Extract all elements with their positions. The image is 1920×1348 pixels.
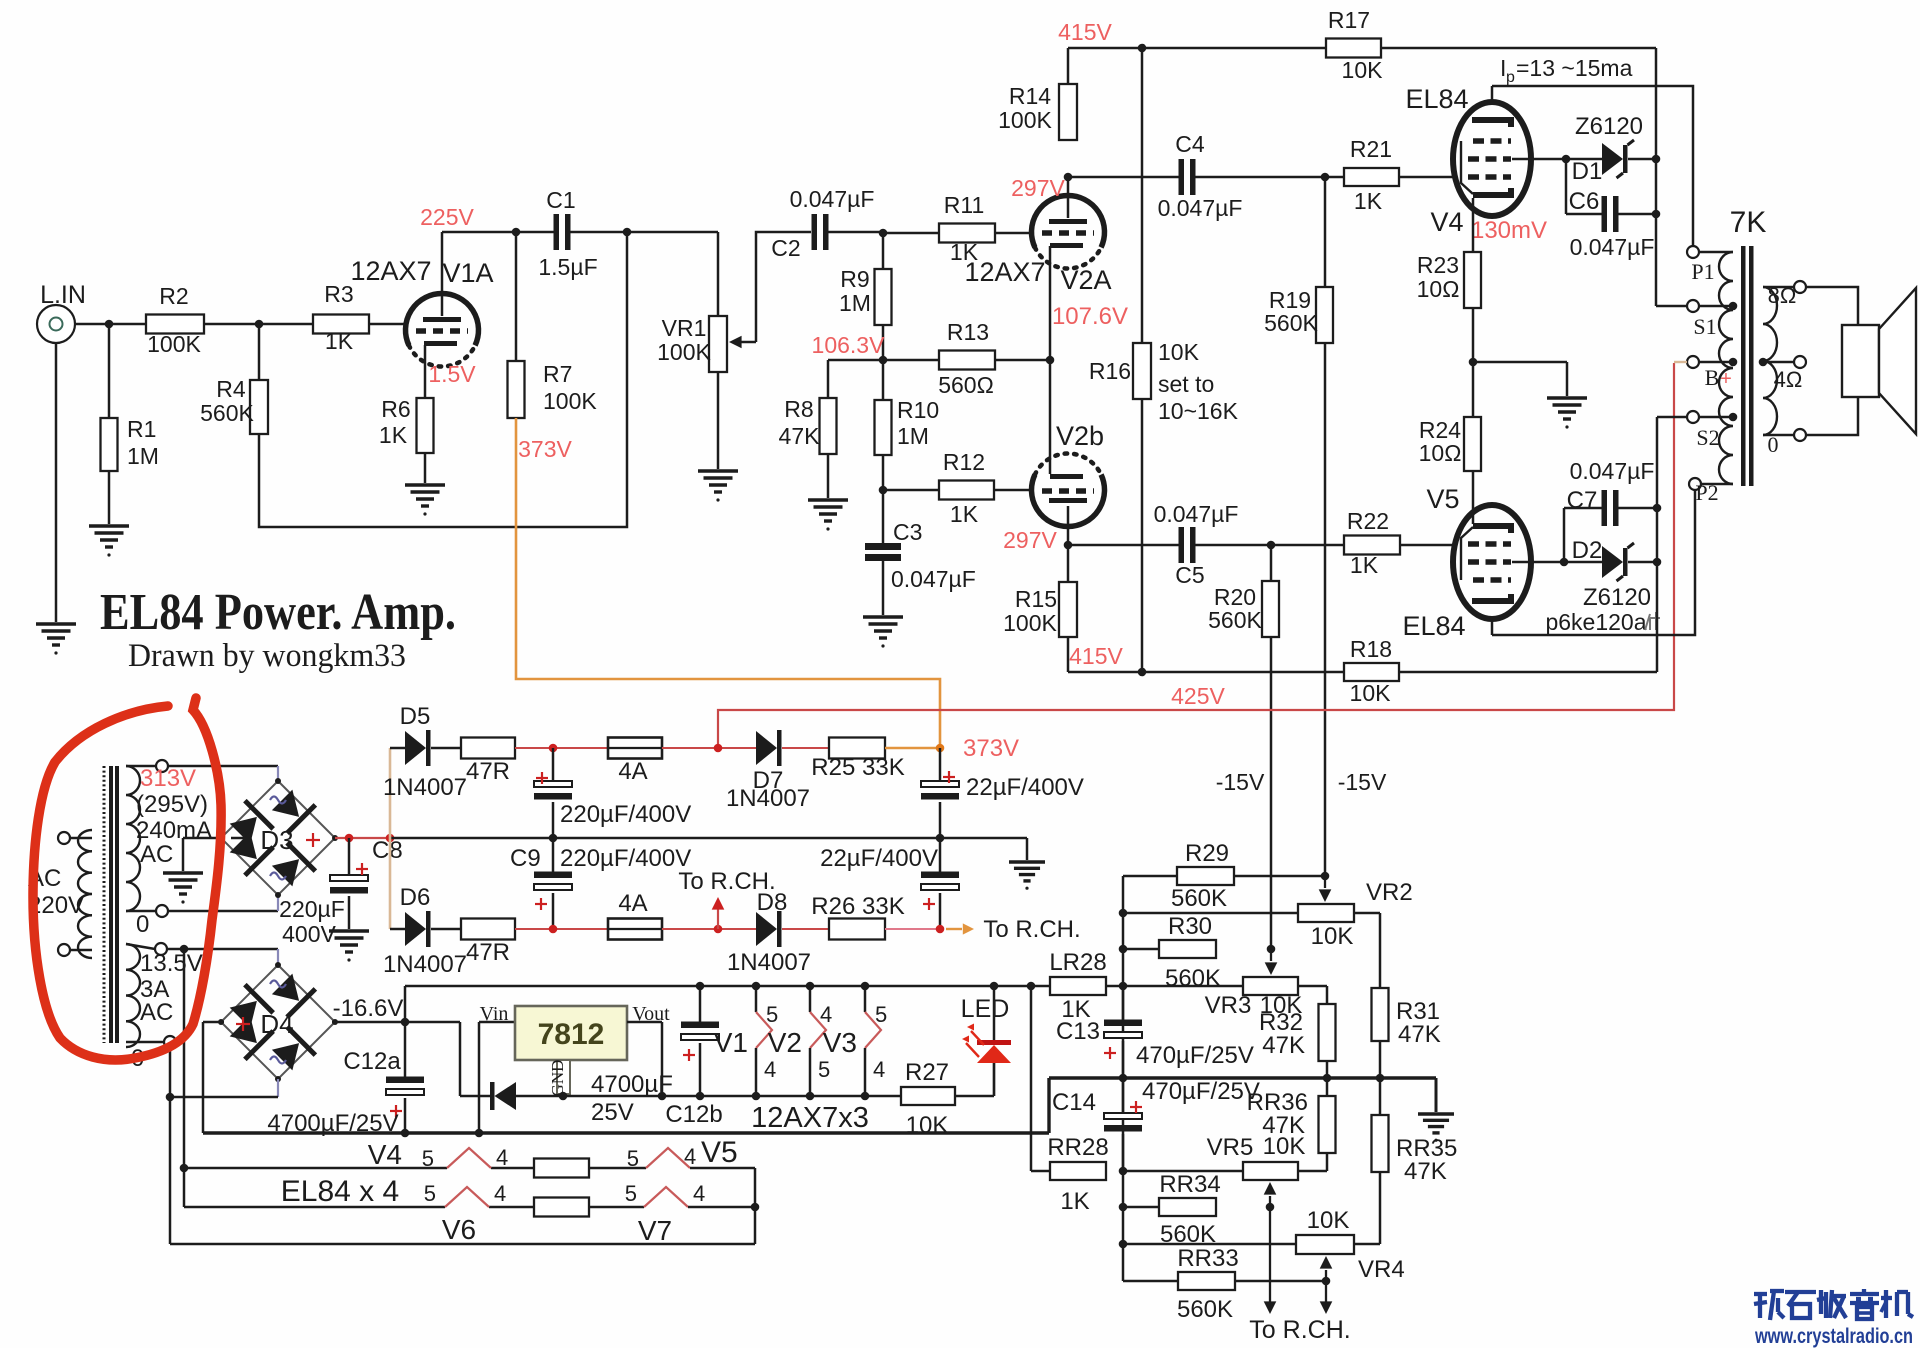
svg-text:C8: C8 xyxy=(372,837,403,864)
svg-text:-15V: -15V xyxy=(1338,769,1387,795)
wire R15 to 415V rail xyxy=(1067,637,1070,672)
node feedback junction xyxy=(623,228,632,237)
terminal 0 xyxy=(1794,429,1806,441)
node C2/R9/R11 xyxy=(879,229,888,238)
resistor R18 xyxy=(1344,663,1399,681)
diode D5 xyxy=(390,747,405,750)
output transformer secondary coil xyxy=(1763,287,1777,435)
node tan vertical junction xyxy=(386,834,395,843)
svg-text:560K: 560K xyxy=(200,400,254,426)
svg-text:S1: S1 xyxy=(1693,314,1716,339)
svg-text:1K: 1K xyxy=(1354,188,1383,214)
wire RR35 to mid rail xyxy=(1379,1078,1382,1115)
resistor R23 xyxy=(1464,252,1481,308)
svg-text:LED: LED xyxy=(961,995,1010,1023)
svg-text:4: 4 xyxy=(873,1057,885,1082)
svg-text:B: B xyxy=(1705,365,1720,390)
svg-text:D1: D1 xyxy=(1572,158,1603,185)
wire HV bottom to D3 xyxy=(168,910,278,913)
potentiometer VR1 xyxy=(717,232,720,316)
node cathode junction xyxy=(1469,358,1478,367)
capacitor C4 xyxy=(1179,159,1185,195)
wire bias mid rail xyxy=(1049,1076,1436,1079)
node primary tap S2 xyxy=(1729,413,1738,422)
svg-text:p6ke120a: p6ke120a xyxy=(1545,609,1646,635)
wire R29 to VR2 wiper node xyxy=(1234,875,1325,878)
node 22uF mid xyxy=(936,834,945,843)
wire heater top rail xyxy=(405,985,1050,988)
node R19 top xyxy=(1321,173,1330,182)
svg-text:4: 4 xyxy=(693,1181,705,1206)
ground for R1 xyxy=(89,524,129,527)
svg-text:VR1: VR1 xyxy=(662,315,707,341)
svg-text:V4: V4 xyxy=(1430,207,1463,237)
svg-text:R1: R1 xyxy=(127,416,156,442)
node C9 mid xyxy=(549,834,558,843)
svg-text:EL84 x 4: EL84 x 4 xyxy=(281,1175,399,1208)
resistor R7 xyxy=(515,232,518,361)
svg-text:D5: D5 xyxy=(400,703,431,730)
resistor R26 xyxy=(782,928,829,930)
node VR4 wire left xyxy=(1119,1240,1128,1249)
svg-text:470µF/25V: 470µF/25V xyxy=(1142,1078,1260,1105)
svg-text:47R: 47R xyxy=(466,758,510,785)
wire to V5 heater xyxy=(589,1167,646,1170)
node C8 top xyxy=(345,834,354,843)
svg-text:Vin: Vin xyxy=(480,1003,509,1025)
wire R6 to ground xyxy=(424,453,427,483)
wire heater right return xyxy=(754,1168,757,1244)
potentiometer VR3 xyxy=(1243,977,1298,995)
zener D1 xyxy=(1566,158,1602,161)
resistor R1 xyxy=(108,324,111,418)
resistor 47R top xyxy=(431,747,461,750)
heater V2 xyxy=(809,986,812,1012)
node C7 right xyxy=(1653,504,1662,513)
node GND pin xyxy=(559,1092,568,1101)
capacitor C3 xyxy=(882,490,885,543)
wire C1 to VR1 xyxy=(570,231,718,234)
node LR28 right xyxy=(1119,982,1128,991)
svg-text:373V: 373V xyxy=(963,735,1019,762)
wire V5 anode to P2 xyxy=(1492,490,1695,635)
svg-text:To R.CH.: To R.CH. xyxy=(1249,1316,1350,1344)
resistor R13 xyxy=(883,359,939,362)
svg-text:R3: R3 xyxy=(324,281,353,307)
svg-text:C6: C6 xyxy=(1569,188,1600,215)
wire jack to R2 xyxy=(75,323,146,326)
VR4 wiper arrow xyxy=(1320,1256,1333,1269)
svg-text:V5: V5 xyxy=(1426,484,1459,514)
svg-text:C4: C4 xyxy=(1175,131,1205,157)
svg-text:R4: R4 xyxy=(216,376,246,402)
wire rail to ground right xyxy=(1026,838,1029,860)
regulator U1 7812 xyxy=(515,1006,627,1060)
resistor R16 xyxy=(1141,48,1144,343)
svg-text:LR28: LR28 xyxy=(1049,949,1106,976)
triode V1A xyxy=(406,294,479,346)
terminal 8ohm xyxy=(1794,281,1806,293)
svg-text:C5: C5 xyxy=(1175,562,1204,588)
pentode V4 EL84 xyxy=(1453,102,1531,216)
wire fuse to D8 red xyxy=(662,928,756,930)
svg-text:V5: V5 xyxy=(701,1136,738,1169)
svg-text:415V: 415V xyxy=(1069,643,1123,669)
capacitor C6 xyxy=(1565,159,1568,214)
node R20 top xyxy=(1267,541,1276,550)
wire 47R to fuse bottom red xyxy=(515,928,608,930)
capacitor C9 top xyxy=(552,748,555,784)
capacitor C13 xyxy=(1122,986,1125,1023)
svg-text:1N4007: 1N4007 xyxy=(726,785,810,812)
node VR2 left xyxy=(1119,909,1128,918)
capacitor 22uF top xyxy=(939,748,942,784)
resistor RR33 xyxy=(1123,1280,1178,1283)
svg-text:set to: set to xyxy=(1158,371,1214,397)
svg-text:R12: R12 xyxy=(943,449,985,475)
wire R32 to mid rail xyxy=(1326,1061,1329,1078)
node D2 cathode xyxy=(1653,558,1662,567)
wire Vin pin xyxy=(479,1021,515,1024)
node VR2 wiper top xyxy=(1321,872,1330,881)
svg-text:1.5V: 1.5V xyxy=(428,361,476,387)
ground for C3 xyxy=(863,615,903,618)
wire R24 to V5 cathode xyxy=(1472,471,1475,524)
wire to VR4 xyxy=(1123,1243,1296,1246)
svg-text:47K: 47K xyxy=(779,423,821,449)
svg-text:220µF: 220µF xyxy=(279,896,345,922)
svg-text:10Ω: 10Ω xyxy=(1417,276,1460,302)
wire to V7 heater xyxy=(589,1206,644,1209)
capacitor C5 xyxy=(1179,527,1185,563)
wire V4 anode to P1 xyxy=(1492,86,1693,246)
node V3 top xyxy=(861,982,870,991)
wire R12 to V2b grid xyxy=(994,489,1031,492)
svg-text:-15V: -15V xyxy=(1216,769,1265,795)
svg-text:1K: 1K xyxy=(1350,552,1379,578)
svg-text:13.5V: 13.5V xyxy=(140,950,203,977)
wire V5 to right node xyxy=(690,1167,755,1170)
node V2 top xyxy=(806,982,815,991)
resistor R22 xyxy=(1344,536,1400,555)
svg-text:25V: 25V xyxy=(591,1099,634,1126)
svg-text:1M: 1M xyxy=(839,290,871,316)
capacitor C7 xyxy=(1563,508,1566,562)
svg-text:RR28: RR28 xyxy=(1047,1134,1108,1161)
svg-text:R26 33K: R26 33K xyxy=(811,893,904,920)
svg-text:To R.CH.: To R.CH. xyxy=(983,916,1080,943)
svg-text:C2: C2 xyxy=(771,235,800,261)
fuse heater top xyxy=(534,1159,589,1178)
wire R22 to V5 grid xyxy=(1400,544,1455,547)
resistor R4 xyxy=(258,324,261,380)
node R4 top xyxy=(255,320,264,329)
node primary tap B+ xyxy=(1729,358,1738,367)
node R16 bottom xyxy=(1138,668,1147,677)
node heater feed xyxy=(180,945,189,954)
wire C2 to node xyxy=(828,231,883,234)
svg-text:10K: 10K xyxy=(1311,923,1354,950)
node secondary tap 4ohm xyxy=(1759,358,1768,367)
terminal P2 xyxy=(1689,478,1701,490)
terminal S2 xyxy=(1687,411,1699,423)
node primary tap S1 xyxy=(1729,302,1738,311)
node V2b anode xyxy=(1064,541,1073,550)
svg-text:R30: R30 xyxy=(1168,913,1212,940)
wire vertical R17/D1/C6 to S1 xyxy=(1655,48,1658,306)
svg-text:R29: R29 xyxy=(1185,840,1229,867)
svg-text:R13: R13 xyxy=(947,319,989,345)
wire R27 to LED xyxy=(955,1095,994,1098)
node VR5 wiper / RR34 xyxy=(1266,1203,1275,1212)
wire R26 to output orange xyxy=(885,928,940,930)
wire 47R to fuse red xyxy=(515,747,608,749)
svg-text:373V: 373V xyxy=(518,436,572,462)
svg-text:V2b: V2b xyxy=(1056,421,1104,451)
terminal LV top xyxy=(155,943,167,955)
svg-text:R23: R23 xyxy=(1417,252,1459,278)
resistor R9 xyxy=(882,233,885,269)
resistor R12 xyxy=(883,489,939,492)
svg-text:R8: R8 xyxy=(784,396,813,422)
svg-text:4: 4 xyxy=(494,1181,506,1206)
wire tan vertical xyxy=(389,748,392,929)
svg-text:(295V): (295V) xyxy=(136,791,208,818)
svg-text:R17: R17 xyxy=(1328,7,1370,33)
VR3 wiper arrow xyxy=(1270,949,1272,961)
pentode V5 EL84 inverted xyxy=(1453,505,1531,619)
mains input terminals xyxy=(58,832,70,844)
ground for R8 xyxy=(808,498,848,501)
svg-text:R16: R16 xyxy=(1089,358,1131,384)
node R30 left xyxy=(1119,945,1128,954)
capacitor 22uF bottom xyxy=(939,838,942,875)
svg-text:V1: V1 xyxy=(714,1027,748,1058)
svg-text:R15: R15 xyxy=(1015,586,1057,612)
svg-text:Drawn by wongkm33: Drawn by wongkm33 xyxy=(128,638,406,674)
svg-text:12AX7x3: 12AX7x3 xyxy=(751,1102,869,1134)
heater V6 element xyxy=(445,1187,489,1207)
svg-text:0: 0 xyxy=(136,911,149,938)
resistor R25 xyxy=(782,747,829,749)
svg-text:D8: D8 xyxy=(757,889,788,916)
ground for D3 xyxy=(163,871,203,874)
svg-text:400V: 400V xyxy=(282,921,336,947)
svg-text:VR3: VR3 xyxy=(1205,992,1252,1019)
ground for V4/V5 cathodes xyxy=(1547,396,1587,399)
svg-text:220µF/400V: 220µF/400V xyxy=(560,801,691,828)
svg-text:225V: 225V xyxy=(420,204,474,230)
svg-text:560K: 560K xyxy=(1264,310,1318,336)
wire 0V rail xyxy=(203,1131,1049,1134)
zener D2 xyxy=(1564,561,1602,564)
HV secondary coil xyxy=(126,766,140,911)
svg-text:C14: C14 xyxy=(1052,1089,1096,1116)
resistor R31 xyxy=(1372,988,1389,1041)
wire HV top to D3 xyxy=(168,765,278,768)
svg-text:8Ω: 8Ω xyxy=(1768,283,1797,308)
resistor LR28 xyxy=(1050,977,1106,995)
wire feedback R4 to C1 node xyxy=(259,232,627,527)
VR2 wiper arrow xyxy=(1324,876,1326,888)
svg-text:12AX7: 12AX7 xyxy=(964,257,1045,287)
wire 0 to speaker xyxy=(1806,397,1858,435)
node LV return xyxy=(166,1093,175,1102)
wire C5 to R22 node xyxy=(1195,544,1344,547)
diode D7 xyxy=(756,731,777,765)
node V1 top xyxy=(752,982,761,991)
node 373V xyxy=(936,744,945,753)
node VR4 wiper / RR33 xyxy=(1322,1277,1331,1286)
svg-text:100K: 100K xyxy=(543,388,597,414)
resistor RR34 xyxy=(1123,1206,1159,1209)
node cathode/R13 xyxy=(1046,356,1055,365)
svg-text:RR34: RR34 xyxy=(1159,1171,1220,1198)
wire D4 bottom to LV return xyxy=(277,1079,279,1097)
wire orange R7 to 373V node xyxy=(516,418,940,744)
node V2A anode xyxy=(1064,173,1073,182)
resistor R27 xyxy=(901,1087,955,1105)
arrow to R.CH. right orange xyxy=(946,928,962,930)
svg-text:V4: V4 xyxy=(368,1139,402,1170)
resistor R3 xyxy=(313,315,369,334)
wire V6/V7 heater line xyxy=(184,1206,445,1209)
wire bias left vertical xyxy=(1122,876,1125,1281)
wire VR4 right to RR35 xyxy=(1354,1243,1380,1246)
svg-text:10K: 10K xyxy=(1307,1207,1350,1234)
svg-text:47K: 47K xyxy=(1404,1158,1447,1185)
svg-text:5: 5 xyxy=(875,1002,887,1027)
wire D3 minus to ground xyxy=(183,837,221,840)
svg-text:C13: C13 xyxy=(1056,1018,1100,1045)
svg-text:5: 5 xyxy=(818,1057,830,1082)
wire R9 to node xyxy=(882,325,885,360)
node To R.CH. takeoff xyxy=(714,925,723,934)
svg-text:R21: R21 xyxy=(1350,136,1392,162)
svg-text:R18: R18 xyxy=(1350,636,1392,662)
svg-text:10K: 10K xyxy=(1158,339,1200,365)
svg-text:V2: V2 xyxy=(768,1027,802,1058)
wire R13 to cathode node xyxy=(995,359,1050,362)
ground for VR1 xyxy=(698,469,738,472)
wire D4 out to Vin node xyxy=(332,1021,460,1024)
svg-text:0.047µF: 0.047µF xyxy=(891,566,976,592)
svg-text:22µF/400V: 22µF/400V xyxy=(966,774,1084,801)
svg-text:1N4007: 1N4007 xyxy=(727,949,811,976)
wire RR33 to VR4 wiper xyxy=(1235,1280,1326,1283)
wire R2 to R3 xyxy=(204,323,313,326)
svg-text:R11: R11 xyxy=(944,192,985,218)
wire VR5 right to RR36 xyxy=(1298,1170,1327,1173)
svg-text:10Ω: 10Ω xyxy=(1419,440,1462,466)
potentiometer VR2 xyxy=(1298,904,1354,922)
svg-text:22µF/400V: 22µF/400V xyxy=(820,845,938,872)
wire V4/V5 heater line xyxy=(184,1167,447,1170)
wire plus rail y838 xyxy=(390,837,1027,840)
terminal S1 xyxy=(1687,300,1699,312)
svg-text:10K: 10K xyxy=(1342,57,1384,83)
ground for L.IN xyxy=(36,622,76,625)
wire jack down to ground xyxy=(55,343,58,622)
node R31 bottom xyxy=(1376,1074,1385,1083)
svg-text:4: 4 xyxy=(764,1057,776,1082)
capacitor C8 xyxy=(348,838,351,878)
svg-text:560K: 560K xyxy=(1171,885,1227,912)
svg-text:R22: R22 xyxy=(1347,508,1389,534)
wire R21 to V4 grid xyxy=(1399,176,1454,179)
output transformer primary coil xyxy=(1698,251,1733,254)
wire anode rail y545 xyxy=(1068,544,1179,547)
resistor RR35 xyxy=(1372,1115,1389,1172)
resistor 47R bottom xyxy=(431,928,461,931)
svg-text:0.047µF: 0.047µF xyxy=(1154,501,1239,527)
svg-text:5: 5 xyxy=(625,1181,637,1206)
resistor R8 xyxy=(827,360,830,398)
svg-text:D3: D3 xyxy=(260,825,293,855)
wire V1A anode to C1 xyxy=(442,231,554,234)
node C6 right xyxy=(1652,210,1661,219)
svg-text:1N4007: 1N4007 xyxy=(383,951,467,978)
svg-text:EL84: EL84 xyxy=(1402,611,1465,641)
wire vertical S2/C7/D2/R18 xyxy=(1656,417,1659,672)
svg-text:1N4007: 1N4007 xyxy=(383,774,467,801)
resistor RR28 xyxy=(1050,1162,1106,1180)
resistor R14 xyxy=(1067,48,1070,84)
node R7 top xyxy=(512,228,521,237)
svg-text:p: p xyxy=(1506,69,1515,86)
capacitor C1 xyxy=(554,214,560,250)
resistor R15 xyxy=(1067,545,1070,582)
svg-text:R2: R2 xyxy=(159,283,188,309)
svg-text:VR4: VR4 xyxy=(1358,1256,1405,1283)
svg-text:1K: 1K xyxy=(950,501,979,527)
svg-text:C1: C1 xyxy=(546,187,575,213)
node RR34 left xyxy=(1119,1203,1128,1212)
resistor RR36 xyxy=(1319,1096,1336,1153)
wire heater feed vertical xyxy=(183,949,186,1207)
svg-text:5: 5 xyxy=(627,1146,639,1171)
svg-text:R25 33K: R25 33K xyxy=(811,754,904,781)
VR1 wiper arrow xyxy=(729,336,742,349)
heater V1 xyxy=(755,986,758,1012)
power transformer core xyxy=(103,766,106,1043)
svg-text:1K: 1K xyxy=(379,422,408,448)
svg-text:EL84 Power. Amp.: EL84 Power. Amp. xyxy=(100,584,456,641)
capacitor C9 bottom xyxy=(552,838,555,875)
wire R3 to V1A grid xyxy=(369,323,407,326)
node Vout rail xyxy=(658,1092,667,1101)
svg-text:S2: S2 xyxy=(1696,425,1719,450)
svg-text:12AX7: 12AX7 xyxy=(350,256,431,286)
node R13/R9/R10 xyxy=(879,356,888,365)
node RR28 right xyxy=(1119,1167,1128,1176)
wire V7 to right node xyxy=(688,1206,755,1209)
heater V5 element xyxy=(646,1148,690,1168)
svg-text:AC: AC xyxy=(140,999,173,1026)
svg-text:5: 5 xyxy=(766,1002,778,1027)
svg-text:GND: GND xyxy=(548,1060,567,1097)
wire heater bottom rail xyxy=(662,1095,901,1098)
svg-text:0.047µF: 0.047µF xyxy=(1158,195,1243,221)
fuse 4A bottom xyxy=(608,919,662,940)
node V2 bottom xyxy=(806,1092,815,1101)
node LR28 left xyxy=(1027,982,1036,991)
svg-text:5: 5 xyxy=(422,1146,434,1171)
potentiometer VR4 xyxy=(1296,1235,1354,1254)
svg-text:220µF/400V: 220µF/400V xyxy=(560,845,691,872)
capacitor C2 xyxy=(812,214,818,250)
svg-text:240mA: 240mA xyxy=(136,817,212,844)
